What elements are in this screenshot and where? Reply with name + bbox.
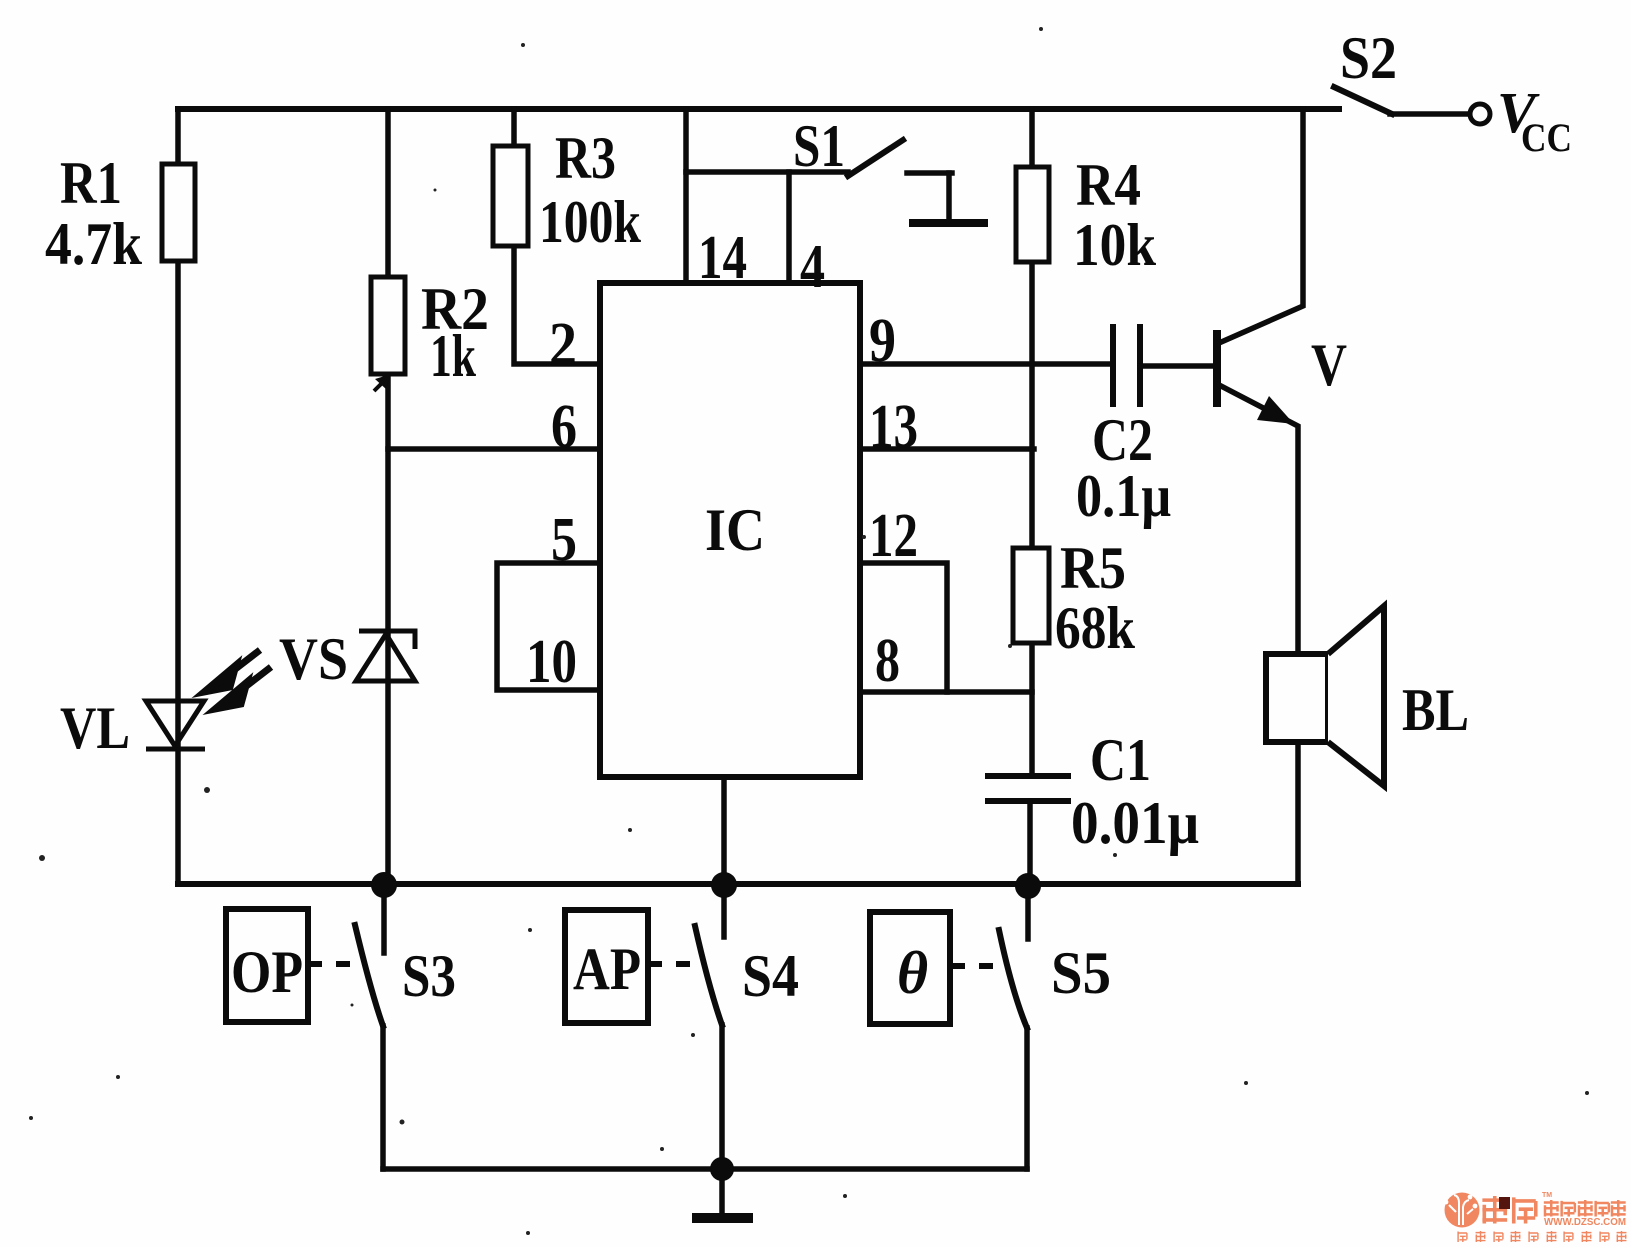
svg-text:OP: OP xyxy=(231,939,303,1005)
svg-text:AP: AP xyxy=(573,936,641,1002)
svg-text:S4: S4 xyxy=(742,943,799,1009)
svg-text:TM: TM xyxy=(1542,1192,1552,1199)
svg-text:6: 6 xyxy=(551,393,577,461)
svg-text:0.1μ: 0.1μ xyxy=(1076,463,1171,529)
svg-text:1k: 1k xyxy=(430,323,476,389)
svg-text:13: 13 xyxy=(869,393,918,461)
svg-text:2: 2 xyxy=(549,311,577,379)
svg-text:BL: BL xyxy=(1402,677,1469,743)
svg-text:9: 9 xyxy=(869,307,896,375)
svg-text:8: 8 xyxy=(875,627,900,695)
svg-text:θ: θ xyxy=(897,940,928,1006)
svg-text:R5: R5 xyxy=(1060,535,1126,601)
svg-text:R4: R4 xyxy=(1076,152,1141,218)
svg-text:CC: CC xyxy=(1521,115,1572,160)
svg-text:VS: VS xyxy=(279,626,348,692)
svg-text:C1: C1 xyxy=(1090,727,1151,793)
svg-text:68k: 68k xyxy=(1055,595,1136,661)
svg-text:R3: R3 xyxy=(555,125,616,191)
svg-text:0.01μ: 0.01μ xyxy=(1071,790,1199,856)
svg-text:V: V xyxy=(1311,332,1347,398)
svg-text:IC: IC xyxy=(705,497,765,563)
svg-text:S3: S3 xyxy=(402,943,456,1009)
svg-text:10k: 10k xyxy=(1073,212,1157,278)
svg-text:12: 12 xyxy=(869,502,918,570)
svg-text:5: 5 xyxy=(551,506,577,574)
svg-text:S5: S5 xyxy=(1051,940,1111,1006)
svg-text:WWW.DZSC.COM: WWW.DZSC.COM xyxy=(1544,1216,1626,1228)
svg-text:14: 14 xyxy=(698,224,747,292)
svg-text:4: 4 xyxy=(800,233,825,301)
svg-text:S2: S2 xyxy=(1340,25,1397,91)
svg-text:VL: VL xyxy=(60,695,130,761)
svg-text:R1: R1 xyxy=(60,150,122,216)
svg-text:100k: 100k xyxy=(539,189,642,255)
svg-text:4.7k: 4.7k xyxy=(45,211,143,277)
svg-text:S1: S1 xyxy=(793,113,845,179)
svg-text:10: 10 xyxy=(526,628,577,696)
